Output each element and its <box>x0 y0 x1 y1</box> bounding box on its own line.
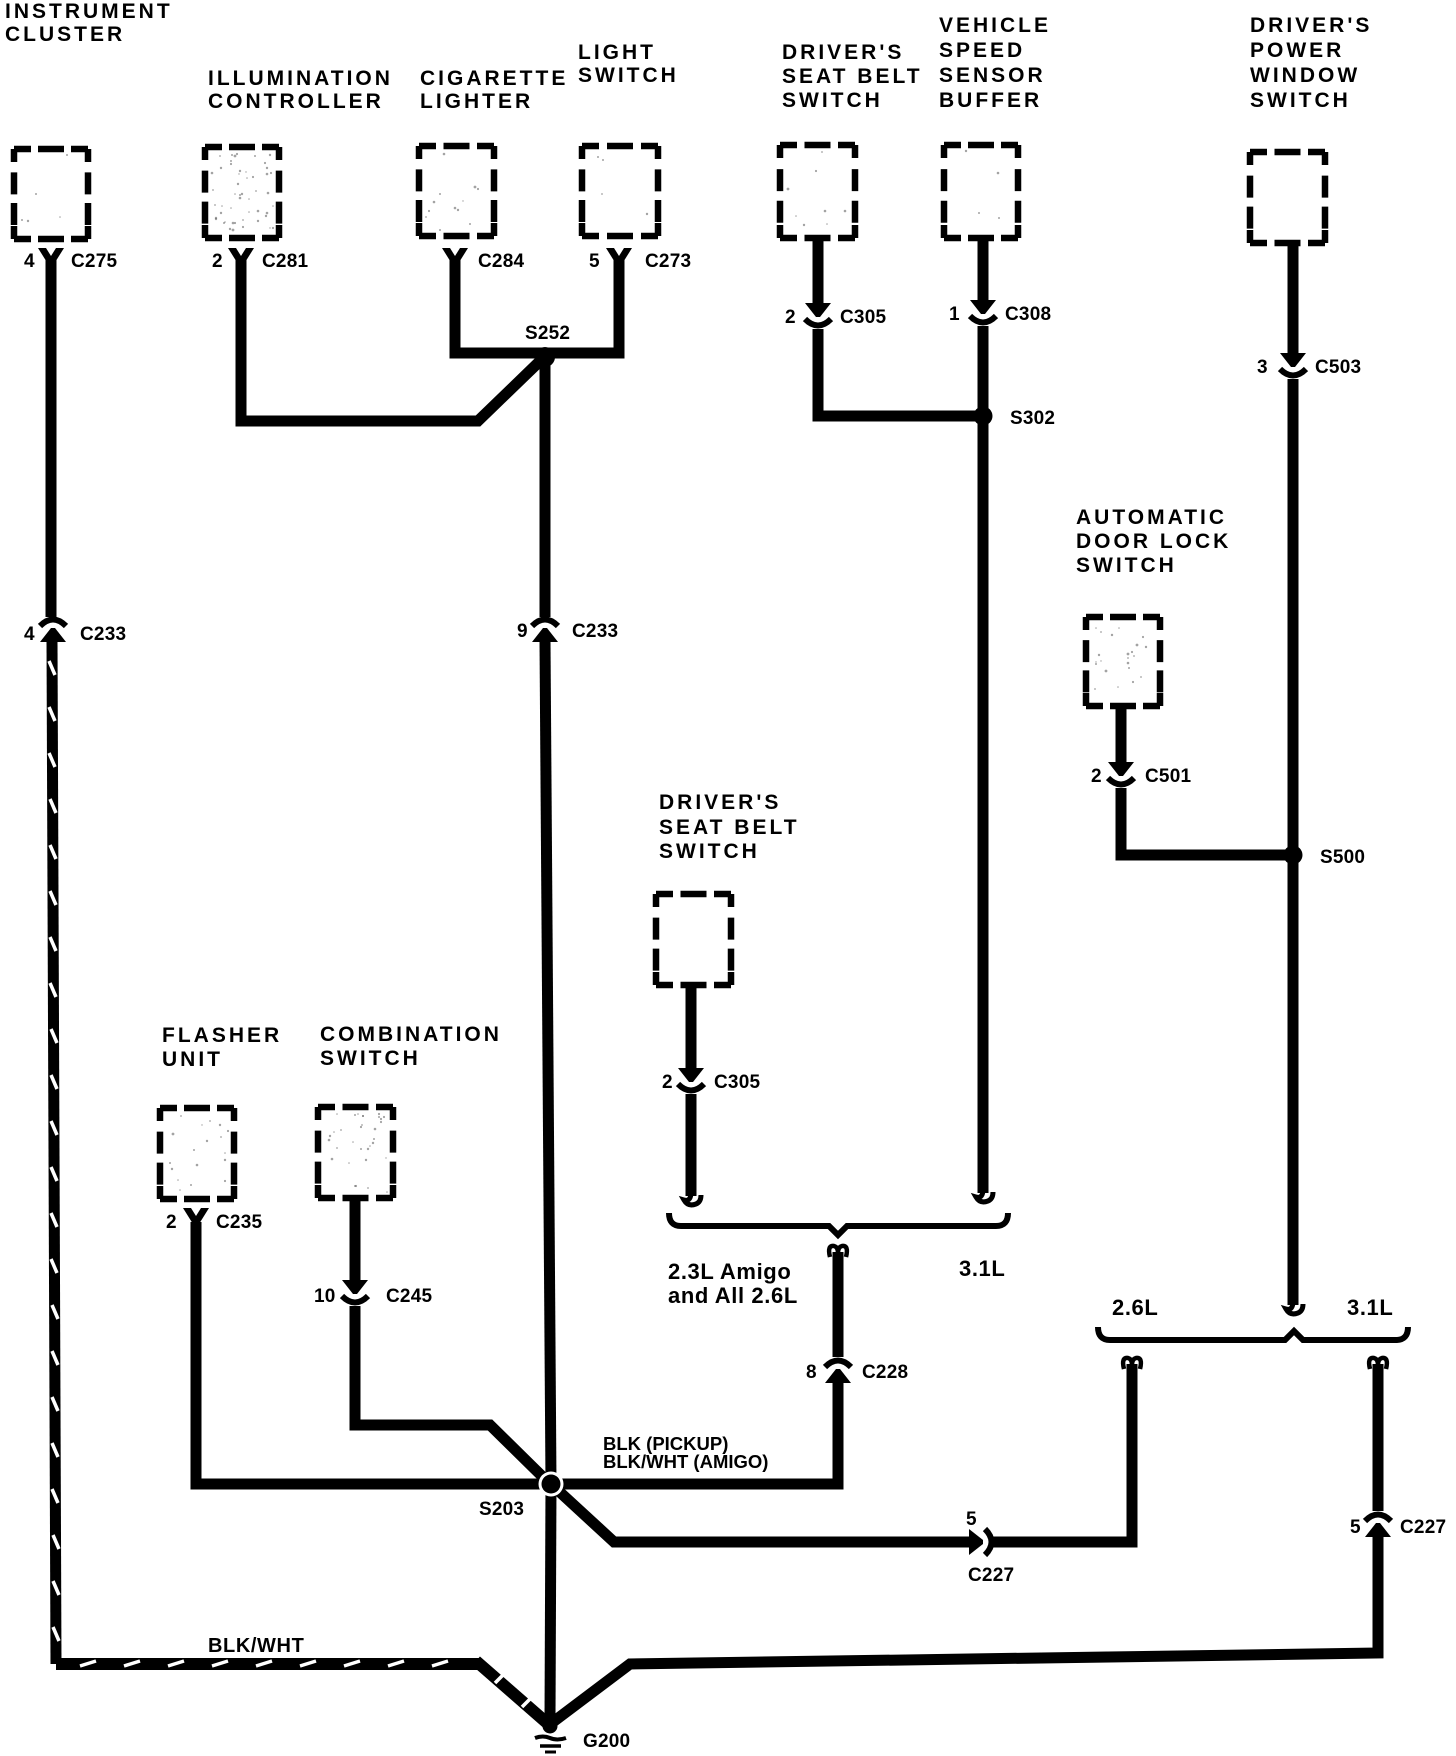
wire end hook above 2.6L/3.1L bracket <box>1286 1288 1303 1314</box>
svg-text:2: 2 <box>212 251 223 272</box>
wire: C305 down to 2.3L bracket <box>686 1094 697 1185</box>
svg-text:INSTRUMENT: INSTRUMENT <box>5 0 173 23</box>
svg-text:C235: C235 <box>216 1212 262 1233</box>
splice S500 <box>1284 846 1303 865</box>
wire: right C227 down and along bottom to G200 <box>553 1537 1378 1722</box>
svg-text:C308: C308 <box>1005 304 1051 325</box>
svg-text:UNIT: UNIT <box>162 1048 223 1071</box>
svg-text:4: 4 <box>24 624 35 645</box>
svg-text:C233: C233 <box>572 621 618 642</box>
wire: C501 to S500 <box>1121 788 1293 855</box>
svg-text:AUTOMATIC: AUTOMATIC <box>1076 506 1227 529</box>
svg-text:ILLUMINATION: ILLUMINATION <box>208 67 393 90</box>
svg-text:3.1L: 3.1L <box>1347 1295 1393 1320</box>
svg-text:SWITCH: SWITCH <box>1076 554 1177 577</box>
wire: illumination controller to S252 <box>241 256 539 421</box>
svg-text:DRIVER'S: DRIVER'S <box>659 791 781 814</box>
svg-text:2: 2 <box>166 1212 177 1233</box>
svg-text:10: 10 <box>314 1286 336 1307</box>
svg-text:S252: S252 <box>525 323 570 344</box>
svg-text:DOOR LOCK: DOOR LOCK <box>1076 530 1231 553</box>
vehicle speed sensor buffer label <box>939 14 1051 112</box>
svg-text:SEAT BELT: SEAT BELT <box>659 816 800 839</box>
wire: main trunk S203 to G200 <box>550 1484 551 1719</box>
wire: C227 to 2.6L drop <box>992 1374 1132 1542</box>
svg-text:VEHICLE: VEHICLE <box>939 14 1051 37</box>
wire: main trunk C233 to S203 <box>545 641 551 1484</box>
svg-text:1: 1 <box>949 304 960 325</box>
connector C233 pin 4 (left) <box>24 620 126 646</box>
wire end hook at 2.3L bracket <box>684 1179 701 1205</box>
wire: S203 diagonal to C227 run <box>551 1484 971 1542</box>
svg-text:SENSOR: SENSOR <box>939 64 1046 87</box>
driver's power window switch label <box>1250 14 1372 112</box>
svg-text:C275: C275 <box>71 251 117 272</box>
connector C228 pin 8 <box>806 1361 908 1384</box>
instrument cluster box <box>14 149 88 239</box>
svg-text:SPEED: SPEED <box>939 39 1025 62</box>
svg-text:S203: S203 <box>479 1499 524 1520</box>
svg-text:C228: C228 <box>862 1362 908 1383</box>
wire: bracket to C228 <box>833 1262 844 1357</box>
driver's seat belt switch box (top) <box>780 145 855 238</box>
connector C273 pin 5 <box>589 248 691 274</box>
wire: C308 through S302 down to 3.1L bracket <box>978 326 989 1182</box>
svg-text:POWER: POWER <box>1250 39 1344 62</box>
automatic door lock switch label <box>1076 506 1231 577</box>
svg-text:5: 5 <box>589 251 600 272</box>
combination switch box <box>318 1107 393 1198</box>
svg-text:DRIVER'S: DRIVER'S <box>782 41 904 64</box>
connector C308 pin 1 <box>949 300 1051 325</box>
svg-text:CIGARETTE: CIGARETTE <box>420 67 568 90</box>
connector C233 pin 9 (trunk) <box>517 620 618 643</box>
wire start hook below 2.6L bracket <box>1123 1358 1141 1382</box>
wire: C245 to S203 <box>355 1306 551 1485</box>
svg-text:C305: C305 <box>840 307 886 328</box>
light switch box <box>582 146 658 236</box>
svg-text:C233: C233 <box>80 624 126 645</box>
svg-text:C501: C501 <box>1145 766 1191 787</box>
svg-text:C245: C245 <box>386 1286 432 1307</box>
svg-text:C284: C284 <box>478 251 524 272</box>
svg-text:SWITCH: SWITCH <box>659 840 760 863</box>
svg-text:WINDOW: WINDOW <box>1250 64 1360 87</box>
net label BLK (PICKUP) / BLK-WHT (AMIGO) <box>603 1433 768 1472</box>
svg-text:CONTROLLER: CONTROLLER <box>208 90 384 113</box>
wire: C228 to S203 <box>551 1383 838 1484</box>
wire: instrument cluster to C233 <box>46 256 57 617</box>
svg-text:BLK/WHT: BLK/WHT <box>208 1635 304 1657</box>
svg-text:SWITCH: SWITCH <box>1250 89 1351 112</box>
svg-text:4: 4 <box>24 251 35 272</box>
connector C503 pin 3 <box>1257 353 1361 378</box>
wire: automatic door lock switch to C501 <box>1116 706 1127 762</box>
connector C501 pin 2 <box>1091 762 1191 787</box>
svg-text:BUFFER: BUFFER <box>939 89 1042 112</box>
wire: main trunk S252 to C233 <box>540 353 551 617</box>
splice S302 <box>974 407 993 426</box>
svg-text:C227: C227 <box>968 1565 1014 1586</box>
svg-text:LIGHTER: LIGHTER <box>420 90 533 113</box>
flasher unit label <box>162 1024 282 1071</box>
svg-text:2: 2 <box>1091 766 1102 787</box>
wire: bracket to right C227 <box>1373 1374 1384 1511</box>
wire end hook at 3.1L bracket <box>976 1176 993 1202</box>
svg-text:S302: S302 <box>1010 408 1055 429</box>
splice S203 <box>539 1472 564 1497</box>
svg-text:C305: C305 <box>714 1072 760 1093</box>
svg-text:2: 2 <box>785 307 796 328</box>
wire: C305 to S302 <box>818 329 983 416</box>
svg-text:5: 5 <box>966 1509 977 1530</box>
connector C227 pin 5 (middle, inline horizontal) <box>966 1509 1014 1586</box>
svg-text:C281: C281 <box>262 251 308 272</box>
driver's seat belt switch label (top) <box>782 41 923 112</box>
instrument cluster label <box>5 0 173 46</box>
wire: C503 through S500 down to 2.6L/3.1L bracket <box>1288 379 1299 1294</box>
svg-text:8: 8 <box>806 1362 817 1383</box>
svg-text:5: 5 <box>1350 1517 1361 1538</box>
svg-text:G200: G200 <box>583 1731 630 1752</box>
wire: combination switch to C245 <box>350 1198 361 1280</box>
svg-text:9: 9 <box>517 621 528 642</box>
svg-text:C273: C273 <box>645 251 691 272</box>
svg-text:2.6L: 2.6L <box>1112 1295 1158 1320</box>
svg-text:SEAT BELT: SEAT BELT <box>782 65 923 88</box>
wire start hook below 2.3L bracket <box>829 1246 847 1270</box>
ground G200 <box>535 1719 566 1753</box>
combination switch label <box>320 1023 502 1070</box>
engine variant label 2.3L Amigo and All 2.6L <box>668 1259 798 1308</box>
wire: BLK/WHT striped from C233 down and along bottom to G200 <box>52 641 56 1664</box>
svg-text:SWITCH: SWITCH <box>320 1047 421 1070</box>
connector C245 pin 10 <box>314 1280 432 1307</box>
svg-text:COMBINATION: COMBINATION <box>320 1023 502 1046</box>
illumination controller label <box>208 67 393 113</box>
light switch label <box>578 41 679 87</box>
wire: driver's power window switch to C503 <box>1288 243 1299 353</box>
wire: cigarette lighter to S252 <box>455 256 545 353</box>
flasher unit box <box>160 1108 234 1199</box>
connector C235 pin 2 <box>166 1208 262 1234</box>
svg-text:2: 2 <box>662 1072 673 1093</box>
wire: vehicle speed sensor buffer to C308 <box>978 238 989 300</box>
connector C284 <box>442 248 524 274</box>
svg-text:SWITCH: SWITCH <box>782 89 883 112</box>
wire: lower driver's seat belt switch to C305 <box>686 985 697 1068</box>
connector C305 pin 2 (lower) <box>662 1068 760 1093</box>
svg-text:DRIVER'S: DRIVER'S <box>1250 14 1372 37</box>
driver's power window switch box <box>1250 152 1325 243</box>
splice S252 <box>535 347 555 367</box>
wire: light switch to S252 <box>545 256 619 353</box>
bracket: 2.6L / 3.1L <box>1098 1327 1408 1340</box>
svg-text:C503: C503 <box>1315 357 1361 378</box>
svg-text:BLK/WHT (AMIGO): BLK/WHT (AMIGO) <box>603 1451 768 1472</box>
svg-text:2.3L Amigo: 2.3L Amigo <box>668 1259 791 1284</box>
svg-text:FLASHER: FLASHER <box>162 1024 282 1047</box>
svg-text:3: 3 <box>1257 357 1268 378</box>
wire: driver's seat belt switch to C305 <box>813 238 824 303</box>
connector C275 pin 4 <box>24 248 117 274</box>
svg-text:C227: C227 <box>1400 1517 1446 1538</box>
svg-text:S500: S500 <box>1320 847 1365 868</box>
driver's seat belt switch label (lower) <box>659 791 800 863</box>
cigarette lighter label <box>420 67 568 113</box>
connector C305 pin 2 (top) <box>785 303 886 328</box>
svg-text:3.1L: 3.1L <box>959 1256 1005 1281</box>
driver's seat belt switch box (lower) <box>656 894 731 985</box>
cigarette lighter box <box>419 146 494 236</box>
illumination controller box <box>205 147 279 238</box>
connector C227 pin 5 (right) <box>1350 1515 1446 1539</box>
vehicle speed sensor buffer box <box>944 145 1018 238</box>
svg-text:CLUSTER: CLUSTER <box>5 23 125 46</box>
wire start hook below 3.1L side of bracket <box>1369 1358 1387 1382</box>
automatic door lock switch box <box>1086 617 1160 706</box>
connector C281 pin 2 <box>212 248 308 274</box>
svg-text:LIGHT: LIGHT <box>578 41 656 64</box>
wire: flasher unit to S203 <box>196 1225 551 1484</box>
bracket: 2.3L Amigo / 3.1L <box>669 1213 1008 1235</box>
svg-text:SWITCH: SWITCH <box>578 64 679 87</box>
svg-text:and All 2.6L: and All 2.6L <box>668 1283 798 1308</box>
